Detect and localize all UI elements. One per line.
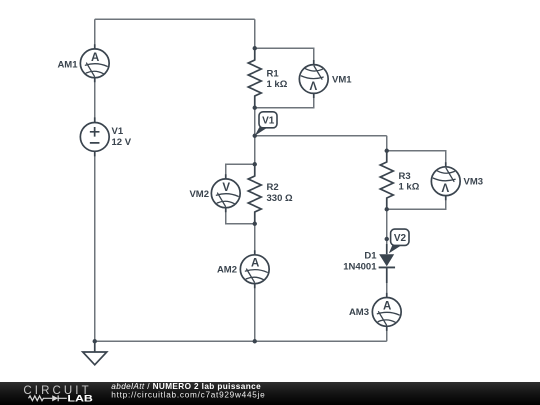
wire VM2 loop top (226, 164, 255, 179)
resistor R3 (380, 151, 393, 210)
svg-text:LAB: LAB (67, 394, 93, 404)
ammeter AM1 (80, 44, 109, 82)
junction at bottom rail center (253, 339, 257, 343)
wire VM1 loop bottom (255, 94, 314, 108)
junction at R2 top (253, 162, 257, 166)
voltmeter VM2 (211, 174, 240, 212)
junction at R1 bottom (253, 106, 257, 110)
svg-text:R1: R1 (267, 69, 280, 80)
wire left vertical above AM1 (94, 19, 96, 45)
svg-text:V2: V2 (394, 233, 407, 244)
svg-text:V1: V1 (112, 126, 124, 137)
svg-text:12 V: 12 V (112, 137, 132, 148)
ammeter AM2 (240, 250, 269, 288)
junction at R2 bottom (253, 222, 257, 226)
svg-text:VM3: VM3 (464, 177, 484, 188)
resistor R1 (248, 48, 261, 108)
wire AM1 to V1 (94, 82, 96, 118)
wire R3 bottom to diode D1 (386, 209, 388, 254)
junction at R3 bottom (385, 207, 389, 211)
svg-text:V: V (309, 79, 317, 91)
node flag V1 (253, 112, 277, 138)
wire R2 bottom junction to AM2 (254, 224, 256, 255)
wire node V1 horizontal to right branch (255, 135, 387, 137)
svg-text:A: A (91, 52, 99, 64)
wire top horizontal (95, 18, 255, 20)
junction at ground (93, 339, 97, 343)
svg-text:http://circuitlab.com/c7at929w: http://circuitlab.com/c7at929w445je (111, 391, 265, 400)
svg-text:A: A (383, 300, 391, 312)
svg-text:V1: V1 (262, 116, 275, 127)
voltage source V1 (80, 117, 109, 156)
svg-text:D1: D1 (364, 250, 377, 261)
svg-text:R2: R2 (267, 182, 279, 193)
ground (83, 341, 107, 365)
wire bottom rail (95, 340, 387, 342)
svg-text:VM2: VM2 (189, 189, 209, 200)
svg-text:1N4001: 1N4001 (343, 262, 377, 273)
wire VM2 loop bottom (226, 208, 255, 224)
svg-text:A: A (251, 258, 259, 270)
svg-text:AM1: AM1 (57, 59, 78, 70)
wire VM1 loop top (255, 48, 314, 64)
svg-text:V: V (222, 182, 230, 194)
junction at R1 top (253, 46, 257, 50)
svg-text:AM3: AM3 (349, 307, 369, 318)
ammeter AM3 (372, 293, 401, 331)
footer bar (0, 382, 540, 405)
voltmeter VM3 (431, 162, 460, 200)
junction at R3 top (385, 149, 389, 153)
svg-text:AM2: AM2 (217, 265, 237, 276)
svg-text:1 kΩ: 1 kΩ (399, 182, 420, 193)
wire R1 bottom to node V1 (254, 108, 256, 136)
wire node V1 to R2 top junction (254, 136, 256, 165)
resistor R2 (248, 164, 261, 223)
voltmeter VM1 (299, 60, 328, 98)
svg-text:1 kΩ: 1 kΩ (267, 79, 288, 90)
svg-text:V: V (441, 181, 449, 193)
svg-text:VM1: VM1 (332, 75, 352, 86)
wire diode D1 to AM3 (386, 268, 388, 298)
diode D1 (379, 244, 395, 283)
wire V1 to bottom rail (94, 156, 96, 341)
wire AM2 to bottom rail (254, 284, 256, 341)
wire bottom rail riser to AM3 (386, 330, 388, 341)
wire top branch vertical to R1 (254, 19, 256, 48)
svg-text:R3: R3 (399, 171, 411, 182)
node flag V2 (385, 229, 409, 253)
svg-text:330 Ω: 330 Ω (267, 193, 293, 204)
footer logo circuit line art (29, 395, 67, 401)
wire VM3 loop top (387, 151, 446, 166)
wire VM3 loop bottom (387, 196, 446, 209)
wire right branch down to R3 junction (386, 136, 388, 151)
